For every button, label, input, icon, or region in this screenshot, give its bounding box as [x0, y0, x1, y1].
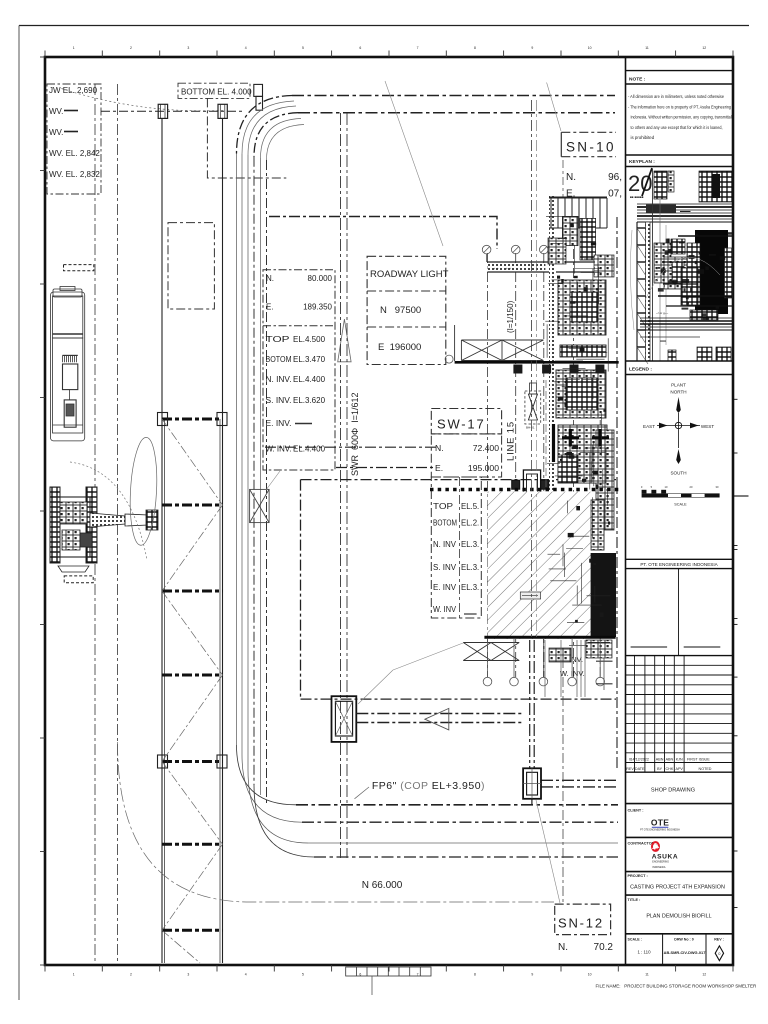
vertical to SN-12	[562, 658, 564, 904]
svg-text:N. INV.: N. INV.	[266, 375, 292, 384]
revision table	[626, 656, 734, 773]
svg-text:APV: APV	[676, 767, 684, 771]
bubble on heavy line	[445, 355, 453, 363]
signature block	[678, 569, 680, 656]
svg-text:WEST: WEST	[701, 424, 714, 429]
svg-text:ABN: ABN	[666, 757, 674, 761]
svg-text:TOP: TOP	[266, 335, 290, 344]
svg-text:N.: N.	[266, 274, 274, 283]
svg-text:96,: 96,	[608, 172, 622, 183]
E-W road top pair	[237, 96, 616, 161]
big light curve to horizontal	[118, 742, 555, 902]
keyplan bottom band	[640, 317, 733, 319]
outer border top	[19, 25, 749, 27]
svg-text:- The information here on is p: - The information here on is property of…	[628, 104, 731, 109]
svg-text:10: 10	[588, 46, 592, 50]
svg-text:E.: E.	[435, 463, 443, 473]
svg-text:12: 12	[702, 46, 706, 50]
svg-text:2: 2	[130, 973, 132, 977]
svg-text:+ + + +: + + + +	[493, 266, 512, 271]
svg-text:3: 3	[187, 46, 189, 50]
svg-text:NOTE :: NOTE :	[629, 77, 646, 83]
svg-text:EL.3.620: EL.3.620	[293, 396, 326, 405]
svg-text:4: 4	[245, 973, 247, 977]
CLIENT box	[626, 836, 734, 838]
svg-text:SCALE: SCALE	[674, 503, 687, 507]
E-W road bottom lines	[296, 805, 618, 857]
svg-text:80.000: 80.000	[308, 274, 333, 283]
svg-text:11: 11	[645, 973, 649, 977]
svg-text:KEYPLAN :: KEYPLAN :	[629, 159, 655, 165]
east boundary vertical	[616, 217, 618, 770]
trailing verticals	[545, 640, 585, 697]
site boundary rectangle	[301, 480, 617, 699]
leader to roadway light	[385, 81, 443, 246]
dashed stall rect bottom	[64, 576, 93, 583]
ROADWAY LIGHT box	[367, 256, 449, 364]
grid bubbles upper	[482, 245, 548, 254]
svg-text:EL.5.: EL.5.	[461, 502, 479, 511]
small X square	[250, 489, 270, 522]
svg-text:NORTH: NORTH	[670, 390, 686, 395]
svg-text:~² or g~~: ~² or g~~	[656, 311, 669, 315]
svg-text:NOTED: NOTED	[699, 767, 712, 771]
svg-text:S. INV: S. INV	[433, 563, 457, 572]
marker connecting line	[101, 110, 244, 112]
svg-text:▬▬▬: ▬▬▬	[680, 209, 691, 213]
svg-text:WV. EL. 2,832: WV. EL. 2,832	[49, 170, 100, 179]
svg-text:10: 10	[588, 973, 592, 977]
road corner curves	[237, 96, 293, 154]
dense structure cluster	[549, 195, 616, 640]
svg-text:N 97500: N 97500	[380, 305, 421, 316]
svg-text:EL.4.400: EL.4.400	[293, 375, 326, 384]
svg-text:S. INV.: S. INV.	[266, 396, 292, 405]
X-brace gallery	[455, 325, 544, 361]
SHOP DRAWING box	[626, 803, 734, 805]
keyplan bottom boxes	[697, 347, 712, 361]
heavy line under gallery	[455, 361, 619, 364]
marker square B	[218, 104, 227, 118]
keyplan road band	[637, 203, 733, 205]
column gridlines	[487, 230, 600, 677]
svg-text:E.: E.	[266, 303, 274, 312]
svg-text:EL.2.: EL.2.	[461, 519, 479, 528]
right margin fold ticks	[733, 399, 749, 907]
keyplan black blob	[695, 230, 728, 314]
svg-text:9: 9	[531, 973, 533, 977]
gridline V2	[117, 84, 119, 963]
svg-text:■■ ■■■■■: ■■ ■■■■■	[630, 195, 644, 199]
svg-text:PLAN DEMOLISH BIOFILL: PLAN DEMOLISH BIOFILL	[646, 914, 711, 920]
svg-text:LINE 15: LINE 15	[506, 421, 517, 461]
svg-text:REV: REV	[626, 767, 634, 771]
svg-text:8: 8	[474, 973, 476, 977]
svg-text:CLIENT :: CLIENT :	[628, 809, 644, 813]
svg-text:AB-SMR-CIV-DWG-017: AB-SMR-CIV-DWG-017	[664, 950, 706, 955]
svg-text:SW-17: SW-17	[437, 417, 486, 432]
svg-text:N. INV: N. INV	[433, 540, 457, 549]
keyplan left ladder	[636, 222, 638, 361]
leader to SN-10	[547, 83, 561, 132]
svg-text:195.000: 195.000	[468, 463, 499, 473]
svg-text:FIRST ISSUE: FIRST ISSUE	[687, 757, 710, 761]
T bars	[596, 660, 613, 662]
svg-text:EL.3.470: EL.3.470	[293, 355, 326, 364]
svg-text:- All dimension are in milimet: - All dimension are in milimeters, unles…	[628, 94, 724, 99]
hatched building area	[488, 492, 591, 639]
elevation text block 1	[47, 84, 101, 194]
conveyor beam	[487, 262, 607, 272]
svg-text:E 196000: E 196000	[378, 342, 421, 353]
link line N row	[265, 446, 436, 448]
svg-text:2: 2	[130, 46, 132, 50]
svg-text:N 66.000: N 66.000	[362, 880, 403, 891]
svg-text:EL.3.: EL.3.	[461, 583, 479, 592]
NOTE header row	[626, 83, 734, 85]
svg-text:SWR 600Φ I=1/612: SWR 600Φ I=1/612	[350, 393, 360, 476]
svg-text:12: 12	[702, 973, 706, 977]
svg-text:7: 7	[417, 46, 419, 50]
svg-text:SCALE :: SCALE :	[628, 937, 642, 941]
KEYPLAN header row	[626, 154, 734, 156]
drain line right rail	[222, 118, 224, 963]
SN-12 label box	[555, 904, 614, 953]
leader manhole B to SN-12	[536, 800, 560, 903]
svg-text:WV. EL. 2,842: WV. EL. 2,842	[49, 149, 100, 158]
svg-text:BH-01: BH-01	[526, 426, 535, 430]
svg-text:N.: N.	[435, 443, 444, 453]
svg-text:EL.4.400: EL.4.400	[293, 445, 326, 454]
dashed stall rect top	[64, 265, 94, 271]
bottom row cells	[662, 934, 664, 965]
svg-text:FP6" (COP EL+3.950): FP6" (COP EL+3.950)	[372, 780, 485, 792]
FP pipe line pair	[356, 714, 617, 787]
PT OTE header row	[626, 558, 734, 560]
svg-text:5: 5	[302, 46, 304, 50]
svg-text:SN-10: SN-10	[566, 140, 616, 155]
svg-text:TOP: TOP	[433, 502, 453, 511]
svg-text:PT OTE ENGINEERING INDONESIA: PT OTE ENGINEERING INDONESIA	[640, 829, 680, 832]
PROJECT box	[626, 894, 734, 896]
bubble stems lower	[488, 639, 601, 677]
notes text	[628, 94, 732, 140]
CONTRACTOR box	[626, 871, 734, 873]
small label box in hatch	[520, 592, 540, 599]
svg-text:1: 1	[73, 46, 75, 50]
pipe pair mid extension	[531, 420, 533, 640]
svg-text:W. INV: W. INV	[433, 605, 457, 614]
small boxes under heavy line	[513, 365, 604, 374]
LEGEND header row	[626, 360, 734, 362]
gridline V1	[94, 84, 96, 963]
L connector line	[207, 98, 286, 178]
cluster gap fillers	[558, 455, 578, 483]
svg-text:Indonesia. Without written per: Indonesia. Without written permission, a…	[631, 115, 732, 120]
svg-text:PROJECT :: PROJECT :	[628, 874, 648, 878]
building top/bottom heavy edges	[484, 636, 615, 639]
survey tie line	[486, 254, 488, 262]
svg-text:WV.: WV.	[49, 128, 63, 137]
svg-text:5: 5	[302, 973, 304, 977]
svg-text:N.: N.	[558, 942, 568, 953]
keyplan heavy strokes	[678, 235, 732, 237]
svg-text:ABN: ABN	[656, 757, 664, 761]
keyplan mid blocks	[654, 243, 671, 283]
svg-text:BOTOM: BOTOM	[433, 519, 457, 528]
graphic scale bar bottom	[346, 967, 431, 995]
svg-text:▬▬: ▬▬	[660, 339, 666, 343]
survey triangle	[338, 319, 351, 362]
excavator	[50, 437, 159, 572]
svg-text:is prohibited: is prohibited	[631, 135, 655, 140]
svg-text:BOTTOM EL. 4.000: BOTTOM EL. 4.000	[181, 88, 252, 97]
outer border left	[18, 26, 20, 1001]
marker square A	[158, 104, 167, 118]
SN-10 label box	[561, 132, 622, 199]
svg-text:DATE: DATE	[635, 767, 645, 771]
compass	[641, 383, 720, 507]
SW-17 label box	[431, 409, 501, 478]
flow arrow open	[425, 708, 449, 730]
svg-text:KJN: KJN	[676, 757, 683, 761]
svg-text:JW EL. 2,690: JW EL. 2,690	[49, 86, 98, 95]
svg-text:EL.4.500: EL.4.500	[293, 335, 326, 344]
grid ticks top	[45, 46, 733, 57]
BOTTOM EL. 4.000 label box	[178, 83, 252, 98]
svg-text:to others and any use except t: to others and any use except that for wh…	[631, 125, 723, 130]
svg-text:3: 3	[187, 973, 189, 977]
svg-text:9: 9	[531, 46, 533, 50]
svg-text:W. INV.: W. INV.	[266, 445, 292, 454]
grid bubbles lower	[483, 677, 604, 686]
N-S road bottom curves	[237, 745, 315, 857]
svg-text:11: 11	[645, 46, 649, 50]
column with footing	[512, 470, 549, 501]
dump truck	[51, 287, 85, 441]
boundary dash-dot top	[269, 217, 497, 250]
structural grid top right	[532, 100, 537, 420]
svg-text:ENGINEERING: ENGINEERING	[652, 861, 669, 864]
svg-text:EAST: EAST	[643, 424, 655, 429]
svg-text:BOTOM: BOTOM	[266, 355, 292, 364]
svg-text:EL.3.: EL.3.	[461, 540, 479, 549]
manhole A with X	[332, 696, 357, 742]
svg-text:189.350: 189.350	[303, 303, 332, 312]
cluster chaos overlay	[545, 217, 610, 646]
svg-text:6: 6	[359, 46, 361, 50]
svg-text:07,: 07,	[608, 189, 622, 200]
svg-text:(I=1/150): (I=1/150)	[506, 300, 515, 333]
N-S road verticals	[237, 154, 267, 806]
svg-text:INDONESIA: INDONESIA	[652, 866, 666, 869]
ladder rungs	[162, 419, 223, 930]
borehole symbol	[525, 383, 541, 430]
ladder diagonals	[162, 419, 223, 963]
svg-text:CASTING PROJECT 4TH EXPANSION: CASTING PROJECT 4TH EXPANSION	[630, 885, 725, 891]
link line E row	[336, 467, 436, 469]
keyplan top clusters	[654, 171, 667, 199]
svg-text:1: 1	[73, 973, 75, 977]
svg-text:72.400: 72.400	[473, 443, 500, 453]
vertical pipe pair to manhole B	[530, 640, 535, 806]
svg-text:ROADWAY LIGHT: ROADWAY LIGHT	[370, 269, 449, 280]
svg-text:SN-12: SN-12	[558, 916, 604, 931]
panel left edge	[625, 57, 627, 965]
dotted road curve top-left	[62, 89, 225, 111]
keyplan drawing	[628, 168, 734, 364]
svg-text:SOUTH: SOUTH	[670, 471, 686, 476]
manhole B	[523, 768, 541, 799]
svg-text:BY: BY	[657, 767, 662, 771]
svg-text:4: 4	[245, 46, 247, 50]
ladder end brackets	[158, 413, 228, 769]
svg-text:N.: N.	[566, 172, 576, 183]
panel top strip	[626, 70, 734, 72]
svg-text:E. INV: E. INV	[433, 583, 457, 592]
svg-text:DRW No : 0: DRW No : 0	[674, 937, 694, 941]
svg-text:LEGEND :: LEGEND :	[629, 367, 652, 373]
svg-text:PLANT: PLANT	[671, 383, 686, 388]
svg-text:1 : 110: 1 : 110	[637, 950, 651, 955]
elevation text block 2	[263, 270, 335, 470]
svg-text:REV :: REV :	[714, 937, 724, 941]
svg-text:8: 8	[474, 46, 476, 50]
svg-text:CHK: CHK	[666, 767, 674, 771]
svg-text:E. INV.: E. INV.	[266, 419, 292, 428]
svg-text:70.2: 70.2	[594, 942, 614, 953]
INV elevation texts	[560, 655, 585, 678]
dash-dot rectangle	[168, 223, 214, 309]
svg-text:SHOP DRAWING: SHOP DRAWING	[651, 788, 695, 794]
svg-text:TITLE :: TITLE :	[628, 898, 641, 902]
svg-text:14/12/2022: 14/12/2022	[630, 757, 648, 761]
X-brace bottom	[463, 643, 519, 661]
main frame	[45, 57, 733, 965]
SW-17 elevation text	[431, 477, 481, 618]
drain line left rail	[161, 118, 163, 963]
leader from bridge to manhole A	[358, 670, 393, 704]
svg-text:EL.3.: EL.3.	[461, 563, 479, 572]
svg-text:OTE: OTE	[651, 818, 669, 828]
svg-text:WV.: WV.	[49, 107, 63, 116]
TITLE box	[626, 933, 734, 935]
heavy cross markers	[554, 424, 610, 462]
double rect marker	[254, 84, 263, 110]
svg-text:FILE NAME: PROJECT BUILDING: FILE NAME: PROJECT BUILDING STORAGE ROOM…	[596, 984, 757, 989]
svg-text:ASUKA: ASUKA	[652, 854, 678, 861]
svg-text:PT. OTE ENGINEERING INDONESIA: PT. OTE ENGINEERING INDONESIA	[640, 562, 718, 567]
fence boundary square dashes	[430, 488, 620, 491]
sewer line pair	[340, 113, 342, 858]
